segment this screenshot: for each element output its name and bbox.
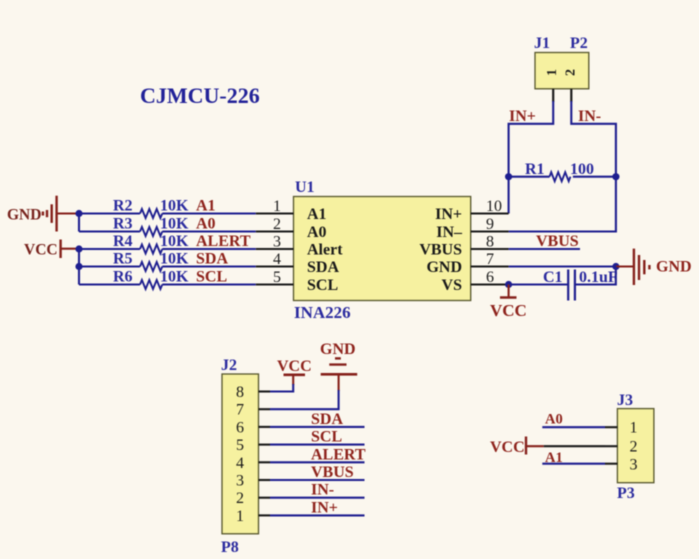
connector J2 (P8) xyxy=(221,357,270,556)
svg-text:1: 1 xyxy=(545,69,560,76)
pin 1 stub xyxy=(259,514,271,516)
svg-text:SDA: SDA xyxy=(307,259,339,276)
svg-text:10K: 10K xyxy=(160,216,189,233)
node junction R1 right xyxy=(612,173,619,180)
svg-text:5: 5 xyxy=(236,437,244,454)
power VCC (above J2 pin 8) xyxy=(277,358,312,385)
svg-text:10K: 10K xyxy=(160,198,189,215)
svg-text:P2: P2 xyxy=(570,35,588,52)
power VCC (left) xyxy=(24,240,79,259)
node junction GND-R2 xyxy=(75,210,82,217)
svg-text:1: 1 xyxy=(236,508,244,525)
svg-text:P8: P8 xyxy=(221,539,239,556)
svg-text:R2: R2 xyxy=(113,198,133,215)
pin 3 stub xyxy=(605,463,617,465)
pin 7 stub xyxy=(259,408,271,410)
svg-text:J1: J1 xyxy=(534,35,550,52)
wire J1.2 to IN- rail xyxy=(509,101,616,232)
wire J1.1 to IN+ rail xyxy=(509,101,554,214)
svg-text:P3: P3 xyxy=(617,485,635,502)
resistor R4 xyxy=(79,233,256,254)
svg-text:SCL: SCL xyxy=(196,269,227,286)
wire J2 pin 2 (IN-) xyxy=(270,497,365,499)
svg-text:U1: U1 xyxy=(295,179,315,196)
svg-text:IN–: IN– xyxy=(436,224,463,241)
svg-text:CJMCU-226: CJMCU-226 xyxy=(140,83,260,108)
svg-text:J3: J3 xyxy=(617,392,633,409)
svg-text:A0: A0 xyxy=(545,412,563,428)
ground (left) xyxy=(7,196,79,232)
svg-text:A0: A0 xyxy=(307,224,327,241)
pin 2 stub xyxy=(259,497,271,499)
svg-text:2: 2 xyxy=(564,69,579,76)
svg-text:SCL: SCL xyxy=(307,277,338,294)
svg-text:IN-: IN- xyxy=(578,108,601,125)
pin 1 stub xyxy=(552,89,554,102)
svg-text:GND: GND xyxy=(320,341,356,358)
svg-text:10K: 10K xyxy=(160,233,189,250)
svg-text:J2: J2 xyxy=(221,357,237,374)
svg-text:ALERT: ALERT xyxy=(311,446,366,463)
wire J2 pin 8 to VCC xyxy=(270,384,293,392)
svg-text:VCC: VCC xyxy=(24,242,58,259)
svg-text:A1: A1 xyxy=(545,450,563,466)
ground (right) xyxy=(616,249,692,285)
pin 4 stub xyxy=(259,461,271,463)
svg-text:VCC: VCC xyxy=(490,301,527,320)
wire C1 right to pin 7 node xyxy=(575,267,616,285)
svg-text:10K: 10K xyxy=(160,269,189,286)
pin 1 stub xyxy=(605,426,617,428)
pin 5 stub xyxy=(259,444,271,446)
connector J3 (P3) xyxy=(605,392,654,502)
wire J2 pin 1 (IN+) xyxy=(270,514,365,516)
ground (above J2 pin 7) xyxy=(320,341,357,391)
resistor R2 xyxy=(79,198,256,219)
resistor R3 xyxy=(79,216,256,237)
svg-text:Alert: Alert xyxy=(307,242,343,259)
svg-text:8: 8 xyxy=(236,384,244,401)
svg-text:VBUS: VBUS xyxy=(311,464,354,481)
svg-text:R4: R4 xyxy=(113,233,133,250)
node junction pin6/VCC xyxy=(505,281,512,288)
wire pin 7 to GND xyxy=(509,265,616,267)
svg-text:3: 3 xyxy=(236,473,244,490)
wire J2 pin 7 to GND xyxy=(270,390,339,409)
power VCC (below pin 6) xyxy=(490,285,527,321)
svg-text:3: 3 xyxy=(630,457,638,474)
svg-text:IN-: IN- xyxy=(311,482,334,499)
IC U1 INA226 xyxy=(256,179,509,322)
pin 8 stub xyxy=(259,390,271,392)
power VCC (J3 pin 2) xyxy=(490,437,544,457)
wire J2 pin 5 (SCL) xyxy=(270,444,365,446)
svg-text:VBUS: VBUS xyxy=(536,233,579,250)
svg-text:VCC: VCC xyxy=(490,439,525,456)
svg-text:R6: R6 xyxy=(113,269,133,286)
wire J2 pin 6 (SDA) xyxy=(270,426,365,428)
wire J3 pin 1 (A0) xyxy=(542,426,605,428)
svg-text:SDA: SDA xyxy=(311,411,343,428)
svg-text:VBUS: VBUS xyxy=(419,242,462,259)
wire J2 pin 3 (VBUS) xyxy=(270,479,365,481)
node junction VCC-R4 xyxy=(75,245,82,252)
svg-text:A0: A0 xyxy=(196,216,216,233)
pin 2 stub xyxy=(605,445,617,447)
pin 6 stub xyxy=(259,426,271,428)
wire J2 pin 4 (ALERT) xyxy=(270,461,365,463)
svg-text:R5: R5 xyxy=(113,251,133,268)
resistor R5 xyxy=(79,251,256,272)
svg-text:R3: R3 xyxy=(113,216,133,233)
capacitor C1 xyxy=(543,269,618,301)
svg-text:INA226: INA226 xyxy=(294,303,351,322)
svg-text:VCC: VCC xyxy=(277,358,312,375)
pin 3 stub xyxy=(259,479,271,481)
svg-text:SCL: SCL xyxy=(311,429,342,446)
svg-text:7: 7 xyxy=(236,402,244,419)
svg-text:2: 2 xyxy=(236,490,244,507)
wire J3 pin 3 (A1) xyxy=(542,463,605,465)
svg-text:10K: 10K xyxy=(160,251,189,268)
svg-text:2: 2 xyxy=(630,439,638,456)
wire VCC rail down to R6 row xyxy=(78,249,80,285)
svg-text:100: 100 xyxy=(570,161,594,178)
node junction pin7/C1 xyxy=(612,263,619,270)
svg-text:4: 4 xyxy=(236,455,244,472)
wire pin 6 to C1 xyxy=(509,283,569,285)
svg-text:GND: GND xyxy=(426,259,462,276)
pin 2 stub xyxy=(570,89,572,102)
connector J1 (P2) xyxy=(534,35,589,102)
node junction R1 left xyxy=(505,173,512,180)
svg-text:VS: VS xyxy=(442,277,463,294)
svg-text:GND: GND xyxy=(656,259,692,276)
wire J3 pin 2 to VCC xyxy=(544,445,605,447)
wire GND rail down to R3 row xyxy=(78,214,80,232)
resistor R6 xyxy=(79,269,256,290)
svg-text:IN+: IN+ xyxy=(509,108,536,125)
svg-text:6: 6 xyxy=(236,419,244,436)
svg-text:IN+: IN+ xyxy=(435,206,462,223)
svg-text:ALERT: ALERT xyxy=(196,233,251,250)
svg-text:SDA: SDA xyxy=(196,251,228,268)
wire pin 8 VBUS xyxy=(509,248,580,250)
svg-text:A1: A1 xyxy=(307,206,327,223)
svg-text:R1: R1 xyxy=(525,161,545,178)
svg-text:IN+: IN+ xyxy=(311,499,338,516)
resistor R1 xyxy=(509,161,616,181)
svg-text:C1: C1 xyxy=(543,269,563,286)
svg-text:A1: A1 xyxy=(196,198,216,215)
node junction R5 xyxy=(75,263,82,270)
svg-text:1: 1 xyxy=(630,420,638,437)
svg-text:GND: GND xyxy=(7,207,41,224)
